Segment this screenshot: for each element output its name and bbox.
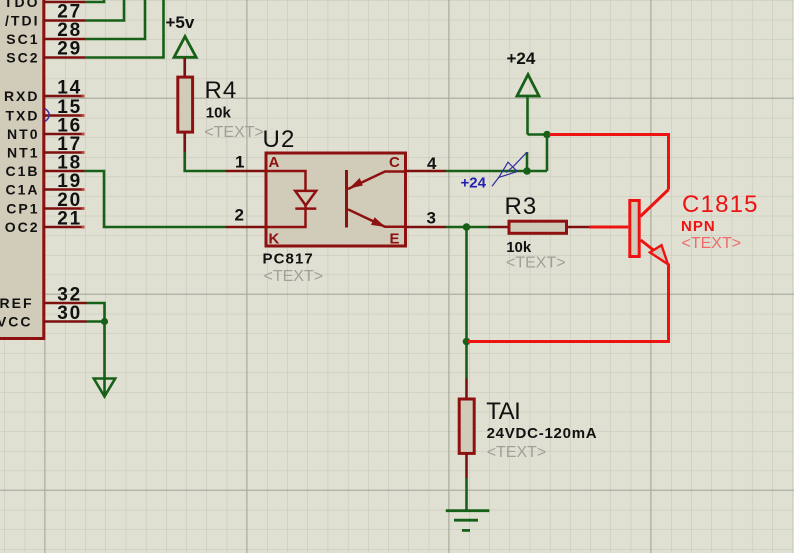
node junction dot at AVCC	[101, 318, 108, 325]
wire pin30 AVCC	[87, 320, 105, 323]
svg-text:NPN: NPN	[681, 218, 716, 235]
pin 18 OC1B stub	[44, 170, 85, 173]
load TA1	[459, 379, 474, 479]
Q1 emitter arrowhead	[650, 245, 668, 264]
svg-text:21: 21	[57, 209, 82, 230]
svg-text:TXD: TXD	[6, 107, 40, 123]
resistor R3	[489, 221, 590, 233]
svg-text:C1815: C1815	[682, 191, 759, 218]
svg-text:E: E	[390, 231, 400, 248]
svg-text:3: 3	[427, 209, 436, 228]
pin 17 INT1 stub	[44, 151, 85, 154]
node junction dot at label stub	[523, 167, 531, 175]
pin 20 ICP1 stub	[44, 207, 85, 210]
wire stub above label node	[526, 152, 529, 171]
svg-text:19: 19	[57, 171, 82, 192]
svg-text:<TEXT>: <TEXT>	[264, 268, 324, 285]
svg-text:29: 29	[57, 39, 82, 60]
wire node to TAI	[465, 342, 468, 379]
red wire collector net	[549, 135, 669, 190]
svg-text:REF: REF	[0, 295, 34, 311]
U2 pin1 stub	[226, 170, 266, 173]
opto-coupler U2	[226, 153, 446, 248]
svg-text:SC2: SC2	[6, 49, 39, 65]
pin stubs of microcontroller	[44, 2, 87, 322]
U2 pin2 stub	[226, 226, 266, 229]
svg-text:TDO: TDO	[4, 0, 40, 10]
svg-text:RXD: RXD	[4, 88, 40, 104]
svg-text:R3: R3	[505, 193, 538, 220]
pin 29 OSC2 stub	[44, 56, 85, 59]
wire pin28 to top edge	[85, 0, 145, 39]
pin numbers of microcontroller	[57, 2, 82, 324]
wire R4 bottom to U2 pin1	[185, 152, 226, 171]
svg-text:<TEXT>: <TEXT>	[682, 235, 742, 252]
pin 28 OSC1 stub	[44, 38, 85, 41]
wire +24 to junction	[528, 133, 548, 136]
ground symbol	[446, 511, 490, 531]
U2 pin3 stub	[406, 226, 447, 229]
svg-text:24VDC-120mA: 24VDC-120mA	[487, 425, 598, 442]
svg-text:A: A	[269, 154, 280, 171]
wire +24 terminal down	[526, 96, 529, 135]
svg-text:/TDI: /TDI	[5, 12, 39, 28]
pin 19 OC1A stub	[44, 188, 85, 191]
transistor Q1 C1815	[630, 190, 669, 265]
dangling pin tips	[82, 96, 85, 227]
svg-text:4: 4	[427, 154, 437, 173]
svg-text:NT0: NT0	[7, 126, 39, 142]
resistor R4	[178, 58, 193, 153]
svg-text:SC1: SC1	[6, 31, 39, 47]
svg-text:<TEXT>: <TEXT>	[506, 255, 566, 272]
pin 27 /TDI stub	[44, 19, 85, 22]
TA1 bottom pin stub	[465, 453, 468, 478]
U2 internal LED anode wire	[266, 171, 306, 191]
svg-text:14: 14	[57, 78, 82, 99]
U2 phototransistor base bar	[345, 170, 348, 228]
svg-text:TAI: TAI	[486, 398, 520, 425]
U2 emitter line	[348, 209, 406, 226]
wire pin29 to top edge	[85, 0, 164, 58]
red wire R3 to base	[589, 226, 628, 229]
pin 21 OC2 stub	[44, 226, 85, 229]
wire U2 pin3 to R3	[446, 226, 489, 229]
svg-text:<TEXT>: <TEXT>	[487, 444, 547, 461]
U2 internal LED triangle	[295, 191, 316, 206]
svg-text:CP1: CP1	[6, 200, 39, 216]
R4 top pin stub	[183, 58, 186, 77]
node junction dot pin3	[463, 223, 471, 231]
U2 internal cathode wire to pin K	[266, 205, 306, 228]
svg-text:C: C	[389, 154, 400, 171]
red wire emitter net	[468, 264, 669, 342]
svg-text:U2: U2	[263, 126, 296, 153]
TA1 top pin stub	[465, 379, 468, 400]
svg-text:+24: +24	[461, 175, 487, 192]
pin 30 AVCC stub	[44, 320, 87, 323]
svg-text:R4: R4	[205, 77, 238, 104]
svg-text:OC2: OC2	[5, 219, 40, 235]
pin TDO stub	[44, 1, 85, 4]
svg-text:C1A: C1A	[5, 181, 39, 197]
TA1 body	[459, 399, 474, 453]
R3 left pin stub	[489, 226, 510, 229]
U2 collector line	[348, 172, 406, 190]
wire pin27 to top edge	[85, 0, 124, 21]
node junction dot top	[543, 131, 551, 139]
node junction dot lower	[463, 338, 471, 346]
wire TDO to top edge	[85, 0, 104, 2]
blue marker at TXD pin	[45, 109, 49, 122]
svg-text:NT1: NT1	[7, 144, 39, 160]
microcontroller U1 body (partially visible at left)	[0, 0, 44, 339]
U2 pin4 stub	[406, 170, 447, 173]
pin 15 TXD stub	[44, 114, 85, 117]
+24 power terminal	[507, 49, 540, 96]
+5v power terminal	[166, 13, 197, 57]
svg-text:+5v: +5v	[166, 13, 195, 32]
wire TA1 to ground	[465, 478, 468, 510]
ground arrow (down power terminal)	[94, 379, 115, 397]
svg-text:<TEXT>: <TEXT>	[204, 124, 264, 141]
wire pin32 AREF down	[87, 303, 105, 322]
wire down to ground arrow	[103, 322, 106, 396]
wire junction down	[546, 135, 549, 172]
svg-text:1: 1	[235, 153, 244, 172]
pin 16 INT0 stub	[44, 133, 85, 136]
pin 14 RXD stub	[44, 95, 85, 98]
U2 body box	[266, 153, 406, 246]
pin 32 AREF stub	[44, 302, 87, 305]
svg-text:K: K	[269, 230, 280, 247]
svg-text:2: 2	[235, 206, 244, 225]
R3 right pin stub	[568, 226, 590, 229]
U2 collector arrowhead	[349, 178, 363, 189]
R3 body	[509, 221, 567, 233]
wire node down	[465, 227, 468, 342]
U2 internal LED cathode bar	[295, 207, 316, 210]
blue annotation arrow	[492, 152, 527, 186]
wire U2 pin4 net	[446, 170, 547, 173]
svg-text:+24: +24	[507, 49, 536, 68]
svg-text:PC817: PC817	[263, 251, 314, 268]
Q1 emitter diagonal	[641, 240, 654, 251]
Q1 base bar	[630, 201, 639, 257]
Q1 collector diagonal	[640, 190, 668, 217]
svg-text:C1B: C1B	[5, 163, 39, 179]
svg-text:10k: 10k	[506, 239, 532, 256]
U2 emitter arrowhead	[371, 217, 386, 227]
svg-text:10k: 10k	[206, 105, 232, 122]
wire pin18 OC1B to U2 pin2	[85, 171, 227, 227]
R4 body	[178, 77, 193, 132]
pin name labels inside chip (cut at left edge)	[0, 0, 40, 329]
R4 bottom pin stub	[183, 133, 186, 152]
svg-text:VCC: VCC	[0, 313, 33, 329]
svg-text:30: 30	[57, 303, 82, 324]
